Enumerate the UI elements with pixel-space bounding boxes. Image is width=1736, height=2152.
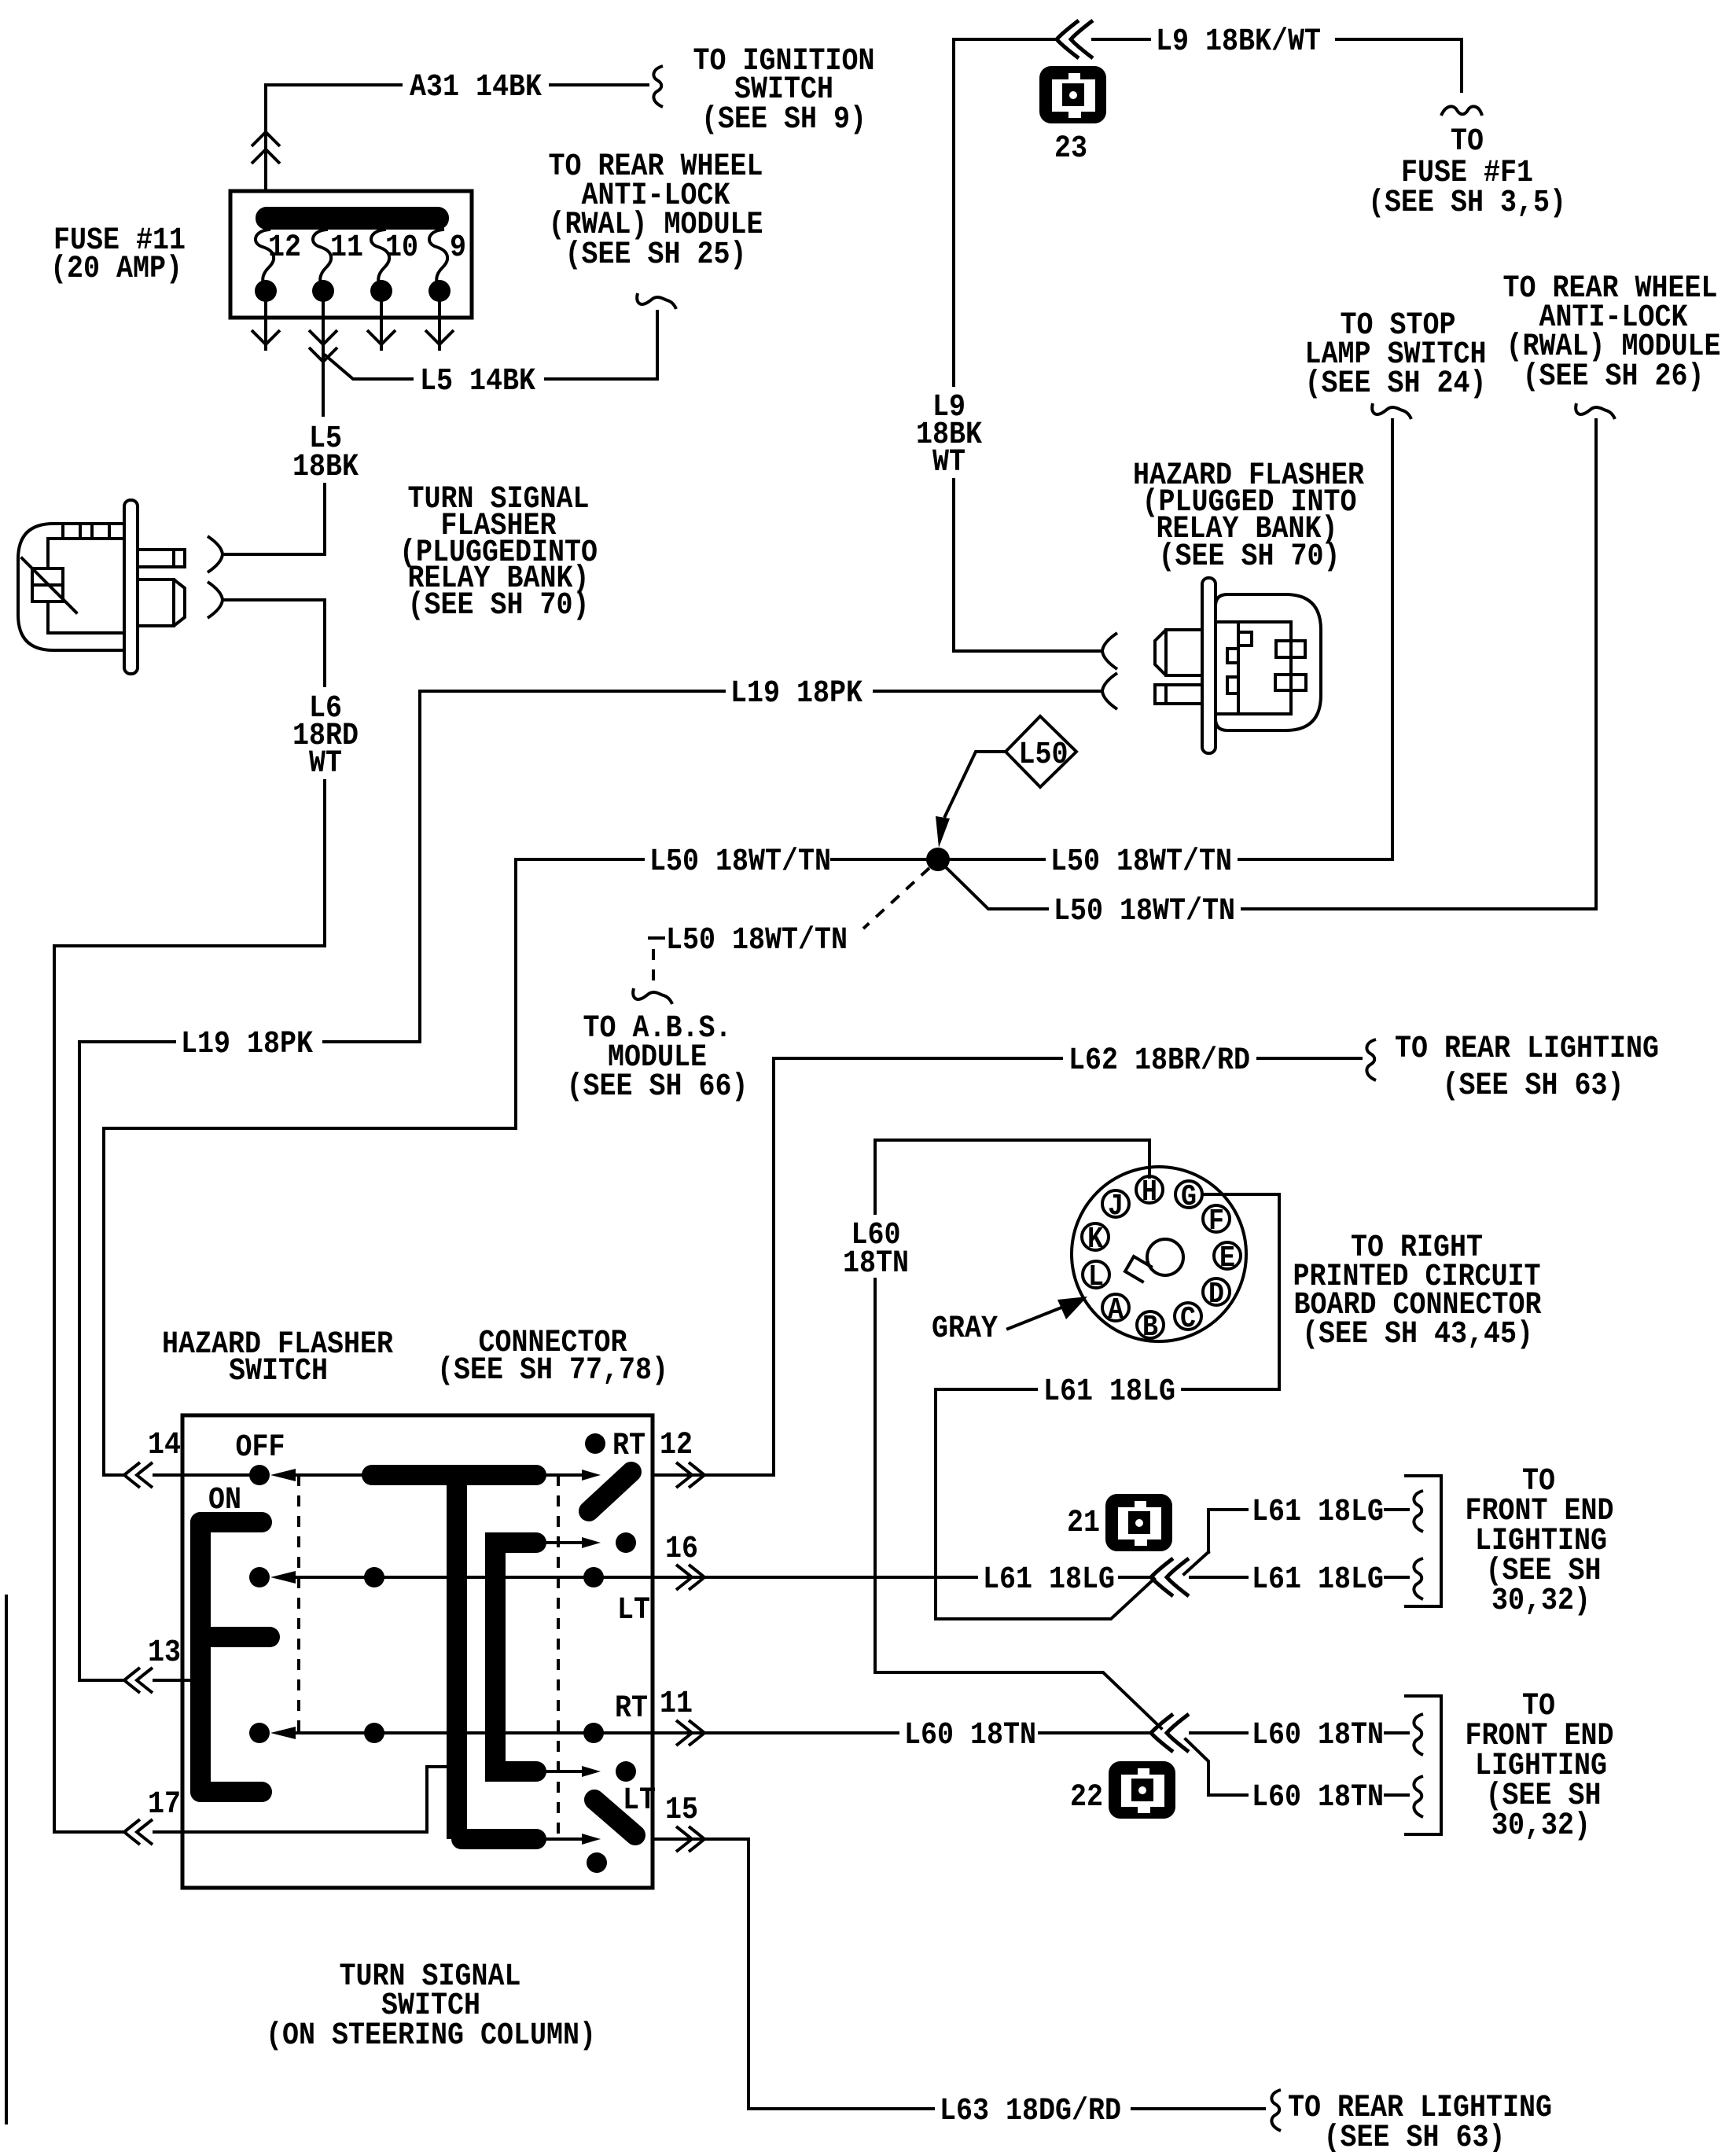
connector center keyway: [1147, 1239, 1183, 1275]
wire L19 label row: [79, 1040, 420, 1043]
svg-text:(SEE SH 70): (SEE SH 70): [1158, 539, 1340, 575]
connector squiggle to rear lighting bottom: [1271, 2090, 1281, 2131]
wire A31 to ignition switch: [550, 83, 648, 86]
wire L60 right of connector: [1190, 1731, 1247, 1734]
wire L50 right branch 2 diagonal: [947, 868, 1047, 909]
page edge line: [5, 1596, 8, 2123]
row 11 wiper dots: [364, 1723, 384, 1743]
svg-text:E: E: [1219, 1241, 1235, 1275]
inline connector chevrons L60: [1151, 1714, 1173, 1752]
svg-text:L61 18LG: L61 18LG: [1252, 1495, 1384, 1530]
wire L62 to rear lighting: [1258, 1057, 1361, 1060]
wire pin H to L60 run: [875, 1140, 1149, 1213]
pin H: [1136, 1176, 1163, 1203]
turn signal flasher lower prong: [138, 579, 185, 626]
svg-text:L5 14BK: L5 14BK: [420, 364, 535, 399]
wire row 16 across: [296, 1576, 653, 1579]
svg-text:WT: WT: [309, 746, 342, 782]
thick trace E middle arm: [200, 1627, 270, 1647]
wire arrow to T bar: [296, 1473, 362, 1477]
wire L50 right1 to stop lamp vertical: [1239, 858, 1392, 861]
svg-text:21: 21: [1067, 1506, 1100, 1541]
connector squiggle L61 branch: [1414, 1491, 1423, 1532]
svg-text:G: G: [1181, 1179, 1197, 1214]
wire L61 to inline connector: [1120, 1576, 1151, 1579]
fuse 11 output arrow double chevron: [322, 302, 325, 415]
turn signal flasher inner bottom line: [48, 601, 124, 633]
fuse 12 output arrow: [264, 302, 267, 349]
turn signal flasher body: [18, 524, 124, 650]
svg-text:F: F: [1208, 1204, 1224, 1238]
wire L61 label row to vertical: [936, 1389, 1154, 1619]
arrow to ON contact row 11: [270, 1727, 296, 1739]
svg-text:15: 15: [665, 1793, 698, 1828]
wire L19 18PK to hazard flasher: [420, 690, 724, 693]
wire L50 branch to stop lamp switch: [1391, 420, 1394, 859]
pin F: [1203, 1205, 1230, 1232]
hazard flasher inner steps: [1227, 632, 1252, 693]
svg-text:18BK: 18BK: [292, 450, 359, 485]
hazard flasher body: [1216, 594, 1321, 730]
wire L61 branch diagonal to connector: [1184, 1552, 1208, 1574]
wire dashed vertical to ABS: [652, 949, 655, 984]
exit chevrons pin 16: [676, 1565, 692, 1590]
hazard flasher inner outline: [1216, 622, 1291, 714]
svg-text:10: 10: [385, 230, 418, 266]
svg-text:30,32): 30,32): [1491, 1584, 1591, 1619]
wire pin 12 exit: [653, 1473, 774, 1477]
pin A: [1102, 1294, 1129, 1321]
wire L60 branch to squiggle: [1385, 1793, 1408, 1797]
wire L61 branch to squiggle: [1385, 1508, 1408, 1511]
wire L50 right2 to RWAL vertical: [1242, 907, 1596, 910]
row 11 internal arm arrow: [546, 1770, 583, 1773]
svg-text:LT: LT: [617, 1593, 650, 1628]
connector squiggle L60 branch: [1414, 1776, 1423, 1817]
wire L19 to hazard flasher arc: [874, 690, 1100, 693]
wire L9 18BK/WT top run: [954, 38, 1057, 41]
OFF contact dot: [249, 1465, 270, 1485]
arrow to ON contact row 16: [270, 1571, 296, 1584]
bracket front end lighting group 2: [1406, 1696, 1441, 1834]
fuse bus bar: [256, 207, 449, 230]
wire pin 13 entry: [79, 1042, 126, 1680]
thick trace E vertical: [190, 1522, 211, 1792]
svg-text:L9 18BK/WT: L9 18BK/WT: [1156, 24, 1321, 60]
svg-text:11: 11: [330, 230, 363, 266]
svg-text:A31 14BK: A31 14BK: [410, 70, 542, 105]
fuse block FUSE #11 outline: [230, 191, 472, 318]
svg-text:(20 AMP): (20 AMP): [50, 252, 182, 287]
connector squiggle L60 right: [1414, 1714, 1423, 1755]
pin B: [1137, 1311, 1164, 1338]
hazard flasher switch box: [182, 1415, 653, 1888]
ON contact dot row 11: [249, 1723, 270, 1743]
component icon 22: [1109, 1761, 1175, 1819]
row 16 wiper dots: [364, 1567, 384, 1587]
connector squiggle to ignition switch: [653, 66, 663, 107]
wire L9 to fuse F1: [1337, 39, 1462, 91]
svg-text:(SEE SH 25): (SEE SH 25): [565, 237, 746, 273]
svg-text:L50 18WT/TN: L50 18WT/TN: [1050, 844, 1232, 880]
svg-text:OFF: OFF: [235, 1430, 285, 1466]
svg-text:L: L: [1088, 1260, 1104, 1294]
svg-text:L50 18WT/TN: L50 18WT/TN: [649, 844, 831, 880]
hazard flasher terminal arc upper: [1102, 633, 1117, 669]
contact dot RT pin 12: [585, 1433, 605, 1454]
inline connector chevrons on L9: [1057, 20, 1079, 58]
fuse element 9: [429, 230, 447, 288]
wire L61 right of connector: [1190, 1576, 1247, 1579]
turn signal flasher upper prong: [138, 550, 185, 567]
arrow to OFF contact: [270, 1469, 296, 1481]
lone contact dot below 15: [587, 1852, 607, 1873]
svg-text:L60 18TN: L60 18TN: [1252, 1780, 1384, 1815]
exit chevrons pin 15: [676, 1826, 692, 1852]
wire L50 right branch 1: [950, 858, 1044, 861]
diamond leader line with arrow: [945, 752, 1006, 816]
connector squiggle to fuse F1: [1441, 106, 1482, 116]
svg-text:(SEE SH 66): (SEE SH 66): [566, 1069, 748, 1105]
svg-text:23: 23: [1054, 131, 1087, 167]
pin D: [1203, 1278, 1230, 1305]
svg-text:22: 22: [1070, 1780, 1103, 1815]
svg-text:WT: WT: [932, 445, 965, 480]
svg-text:(SEE SH 3,5): (SEE SH 3,5): [1368, 186, 1566, 221]
svg-text:L50 18WT/TN: L50 18WT/TN: [1054, 894, 1235, 929]
ON contact dot row 16: [249, 1567, 270, 1587]
wire pin G to L61: [1182, 1194, 1279, 1389]
turn signal flasher thermal element: [32, 568, 63, 601]
svg-text:12: 12: [660, 1428, 693, 1463]
svg-text:K: K: [1087, 1222, 1103, 1256]
fuse terminal dots: [255, 280, 277, 302]
svg-text:RT: RT: [612, 1429, 645, 1464]
pin L: [1083, 1261, 1109, 1288]
wire L63 to rear lighting: [1132, 2107, 1264, 2110]
svg-text:L19 18PK: L19 18PK: [730, 676, 862, 712]
svg-text:(SEE SH 70): (SEE SH 70): [407, 588, 589, 624]
hazard flasher inner contact rects: [1276, 641, 1305, 657]
svg-text:L19 18PK: L19 18PK: [181, 1027, 313, 1062]
label L50 18WT/TN dashed: [649, 936, 664, 940]
svg-text:TO: TO: [1451, 124, 1484, 160]
svg-text:11: 11: [660, 1687, 693, 1722]
svg-text:L63 18DG/RD: L63 18DG/RD: [940, 2094, 1121, 2129]
svg-text:L62 18BR/RD: L62 18BR/RD: [1068, 1043, 1250, 1079]
svg-text:SWITCH: SWITCH: [229, 1354, 328, 1389]
wire L9 to hazard flasher: [954, 480, 1100, 651]
hazard flasher flange: [1202, 578, 1216, 753]
wire pin 15 exit: [653, 1837, 748, 1841]
wire L6 from turn signal flasher: [225, 600, 325, 686]
component icon 21: [1105, 1494, 1172, 1551]
entry chevrons pin 14: [124, 1462, 140, 1488]
pin J: [1102, 1190, 1129, 1217]
svg-text:16: 16: [665, 1532, 698, 1567]
thick trace C vertical with arms: [495, 1543, 536, 1771]
fuse 10 output arrow: [380, 302, 383, 349]
thick trace T horizontal bar: [372, 1465, 536, 1485]
connector squiggle from RWAL module sh26: [1576, 403, 1615, 419]
hazard flasher terminal arc lower: [1102, 673, 1117, 709]
svg-text:GRAY: GRAY: [932, 1311, 998, 1347]
svg-text:(SEE SH 63): (SEE SH 63): [1323, 2121, 1505, 2152]
fuse element 11: [313, 230, 331, 288]
svg-text:L60 18TN: L60 18TN: [1252, 1718, 1384, 1753]
wire L61 right to squiggle: [1385, 1576, 1408, 1579]
thick trace E bottom arm: [200, 1782, 262, 1802]
thick trace E top arm: [200, 1512, 262, 1532]
wire row 11 across: [296, 1731, 653, 1734]
fuse element 10: [371, 230, 389, 288]
wire L50 branch to RWAL module: [1594, 420, 1598, 909]
svg-text:C: C: [1180, 1301, 1196, 1336]
svg-text:18TN: 18TN: [843, 1246, 909, 1282]
wire L9 to label: [1093, 38, 1149, 41]
exit chevrons pin 12: [676, 1462, 692, 1488]
wire L6 long run to pin 17: [54, 781, 325, 1832]
svg-text:L61 18LG: L61 18LG: [1252, 1562, 1384, 1598]
row 11 internal contact dot: [616, 1761, 636, 1782]
pin G: [1175, 1181, 1202, 1208]
dashed linkage line right: [557, 1475, 560, 1839]
wire L60 main row from pin 11: [654, 1731, 898, 1734]
wire L5 14BK tap diagonal: [325, 355, 412, 379]
dashed linkage line left: [297, 1475, 300, 1733]
inline connector chevrons L61: [1151, 1558, 1173, 1596]
svg-text:LT: LT: [623, 1783, 656, 1819]
svg-text:12: 12: [268, 230, 301, 266]
svg-text:14: 14: [148, 1428, 181, 1463]
svg-text:L60 18TN: L60 18TN: [904, 1718, 1036, 1753]
svg-text:L50 18WT/TN: L50 18WT/TN: [666, 923, 848, 958]
svg-text:TO REAR LIGHTING: TO REAR LIGHTING: [1395, 1032, 1659, 1067]
component icon 23: [1039, 66, 1106, 123]
wire L60 branch lower: [1186, 1739, 1247, 1795]
wire pin 13 into box: [154, 1679, 203, 1682]
thick trace T vertical bar: [447, 1475, 467, 1839]
svg-text:(ON STEERING COLUMN): (ON STEERING COLUMN): [266, 2018, 596, 2054]
connector squiggle to rear lighting top: [1366, 1039, 1376, 1080]
connector squiggle to RWAL module: [637, 293, 676, 309]
svg-text:L50: L50: [1018, 738, 1068, 773]
net label diamond L50: [1006, 716, 1076, 787]
row 16 internal arm arrow: [546, 1541, 583, 1544]
wire A31 vertical with up chevrons: [264, 85, 267, 191]
svg-text:13: 13: [148, 1635, 181, 1671]
entry chevrons pin 17: [124, 1819, 140, 1845]
connector squiggle to ABS module: [633, 988, 672, 1004]
svg-text:B: B: [1142, 1310, 1158, 1345]
svg-text:(SEE SH 77,78): (SEE SH 77,78): [437, 1353, 668, 1389]
wire L9 vertical down: [952, 39, 955, 385]
wire A31 horizontal: [266, 83, 401, 86]
svg-text:9: 9: [450, 230, 466, 266]
wire L50 dashed branch diagonal: [863, 868, 929, 929]
wire pin 17 into box: [154, 1767, 448, 1832]
wire L5 14BK to RWAL module: [546, 311, 657, 379]
wiper blade pin 15: [594, 1800, 635, 1835]
svg-text:RT: RT: [615, 1691, 648, 1727]
wire L19 vertical: [418, 691, 421, 1042]
turn signal flasher inner top line: [48, 524, 124, 568]
flasher terminal arc upper: [208, 536, 223, 572]
exit chevrons pin 11: [676, 1720, 692, 1746]
svg-text:(SEE SH 26): (SEE SH 26): [1522, 359, 1704, 395]
turn signal flasher flange: [124, 500, 138, 674]
svg-text:(SEE SH 43,45): (SEE SH 43,45): [1302, 1317, 1533, 1352]
round connector body: [1072, 1167, 1246, 1341]
svg-text:D: D: [1208, 1277, 1224, 1311]
node L50 junction dot: [926, 848, 950, 871]
svg-text:L61 18LG: L61 18LG: [1043, 1374, 1175, 1410]
fuse element 12: [256, 230, 274, 288]
pin K: [1082, 1223, 1109, 1250]
connector squiggle from stop lamp switch: [1372, 403, 1411, 419]
wire L5 to turn signal flasher: [225, 484, 325, 554]
pin C: [1175, 1303, 1201, 1330]
svg-text:30,32): 30,32): [1491, 1808, 1591, 1844]
entry chevrons pin 13: [124, 1668, 140, 1693]
wire L61 main row from pin 16: [654, 1576, 977, 1579]
fuse 9 output arrow: [438, 302, 441, 349]
wire L63 from pin 15: [748, 1839, 933, 2109]
svg-text:17: 17: [148, 1787, 181, 1823]
wire L50 left branch to pin 14: [104, 859, 643, 1475]
svg-text:(SEE SH 24): (SEE SH 24): [1304, 366, 1486, 402]
hazard flasher lower prong: [1155, 685, 1202, 704]
wire L60 to inline connector: [1039, 1731, 1151, 1734]
hazard flasher upper prong: [1155, 630, 1202, 675]
svg-text:(SEE SH 9): (SEE SH 9): [701, 102, 866, 138]
wiper blade pin 12: [589, 1472, 631, 1511]
svg-text:(SEE SH 63): (SEE SH 63): [1442, 1069, 1624, 1104]
flasher terminal arc lower: [208, 582, 223, 618]
svg-text:L61 18LG: L61 18LG: [983, 1562, 1115, 1598]
svg-text:A: A: [1108, 1293, 1124, 1327]
wire L62 from pin 12: [774, 1058, 1061, 1475]
GRAY leader arrow: [1008, 1308, 1061, 1329]
thick trace T bottom bar: [462, 1829, 536, 1849]
wire L61 branch upper right: [1208, 1510, 1247, 1552]
wire L60 vertical continues: [875, 1279, 1161, 1728]
row 16 internal contact dot: [616, 1532, 636, 1553]
arrow T bar to wiper 12: [546, 1473, 583, 1477]
wire pin 14 into box: [154, 1473, 249, 1477]
wire L50 left branch: [832, 858, 926, 861]
bracket front end lighting group 1: [1406, 1476, 1441, 1606]
pin E: [1214, 1242, 1241, 1269]
wire L60 right to squiggle: [1385, 1731, 1408, 1734]
svg-text:J: J: [1108, 1189, 1124, 1223]
connector squiggle L61 right: [1414, 1558, 1423, 1599]
arrow T bottom to wiper 15: [546, 1837, 583, 1841]
svg-text:H: H: [1142, 1175, 1157, 1209]
